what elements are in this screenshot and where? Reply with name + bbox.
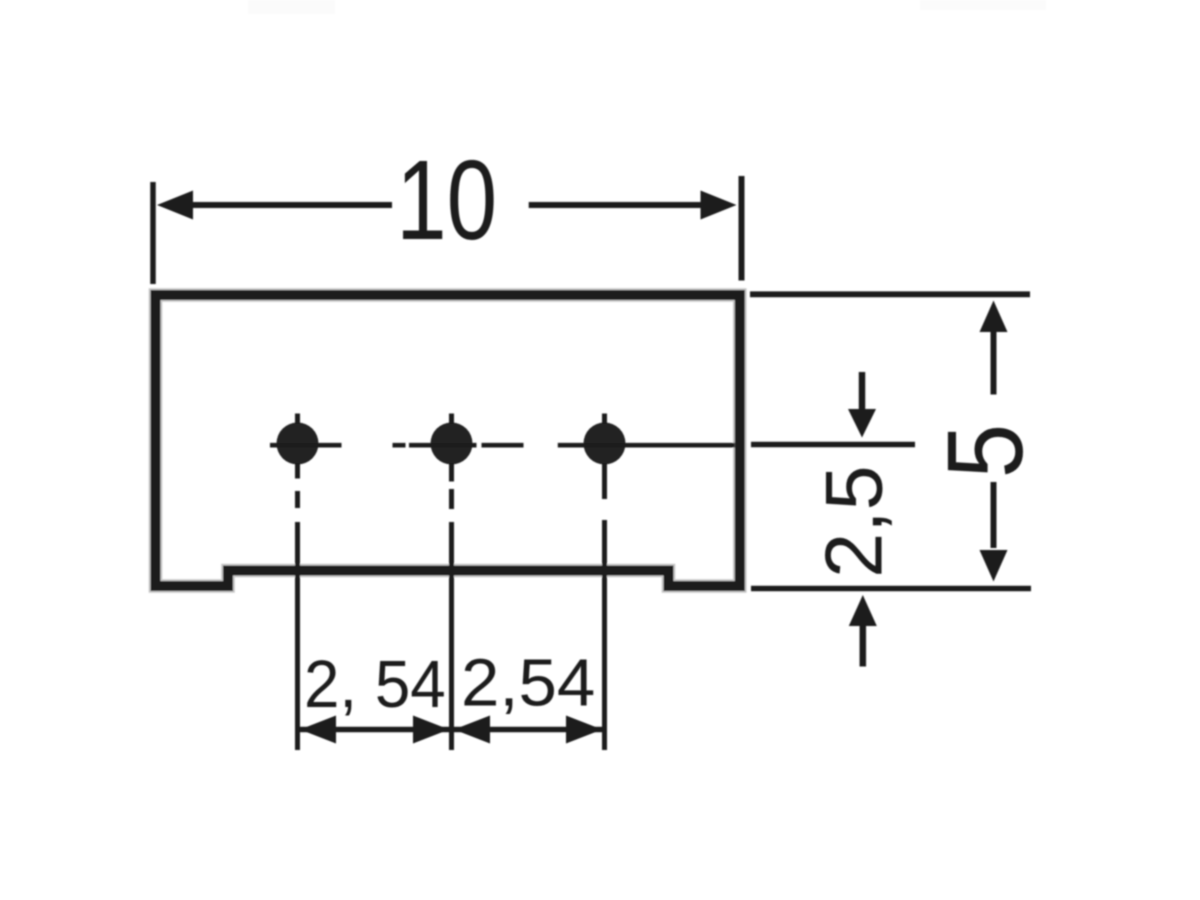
extension line right (for 10) — [739, 176, 745, 281]
arrowhead 2,54 right-left — [454, 716, 490, 744]
pin 3 vertical center line — [602, 414, 607, 751]
horizontal center line dash through pin 1 — [270, 443, 342, 448]
dimension line 2,54 right — [454, 727, 602, 733]
2,5 arrow up (below bottom line) — [860, 623, 867, 667]
dimension line 2,54 left — [300, 727, 449, 733]
dimension 5 lower segment — [991, 482, 997, 548]
horizontal center line dot between pin 1 and 2 — [393, 443, 406, 448]
arrowhead 2,54 left-right — [413, 716, 449, 744]
arrowhead 5 down — [980, 550, 1008, 582]
pin 2 — [431, 423, 473, 465]
horizontal center line dash through pin 2 — [409, 443, 477, 448]
svg-text:2, 54: 2, 54 — [304, 647, 446, 722]
arrowhead 5 up — [980, 301, 1008, 333]
svg-text:10: 10 — [396, 136, 497, 263]
top extension line right side (for 5) — [750, 291, 1030, 297]
bottom extension line right side (for 5 and 2,5) — [751, 586, 1031, 592]
faint scan artifact right — [920, 0, 1046, 10]
svg-text:5: 5 — [925, 424, 1046, 478]
body outline halo — [156, 295, 740, 586]
horizontal center line dash through pin 3 to body edge — [558, 443, 735, 448]
body outline (10 x 5 housing with bottom notch) — [156, 295, 740, 586]
faint scan artifact left — [248, 0, 335, 14]
arrowhead 10 right — [701, 191, 737, 220]
arrowhead 10 left — [157, 191, 193, 220]
arrowhead 2,54 right-right — [566, 716, 602, 744]
extension line left (for 10) — [150, 182, 156, 284]
2,5 arrow down (above pin axis line) — [859, 372, 866, 412]
dimension 5 upper segment — [991, 327, 997, 395]
svg-text:2,5: 2,5 — [810, 465, 900, 578]
dimension line 10 right segment — [529, 202, 706, 208]
pin 1 vertical center line — [295, 414, 300, 751]
svg-text:2,54: 2,54 — [461, 645, 595, 720]
horizontal center line dash after pin 2 — [482, 443, 524, 448]
dimension line 10 left segment — [188, 202, 392, 208]
pin 2 vertical center line — [449, 414, 454, 751]
pin 3 — [584, 423, 626, 465]
pin 1 — [277, 423, 319, 465]
arrowhead 2,54 left-left — [300, 716, 336, 744]
middle extension line at pin axis (for 2,5) — [751, 442, 915, 448]
